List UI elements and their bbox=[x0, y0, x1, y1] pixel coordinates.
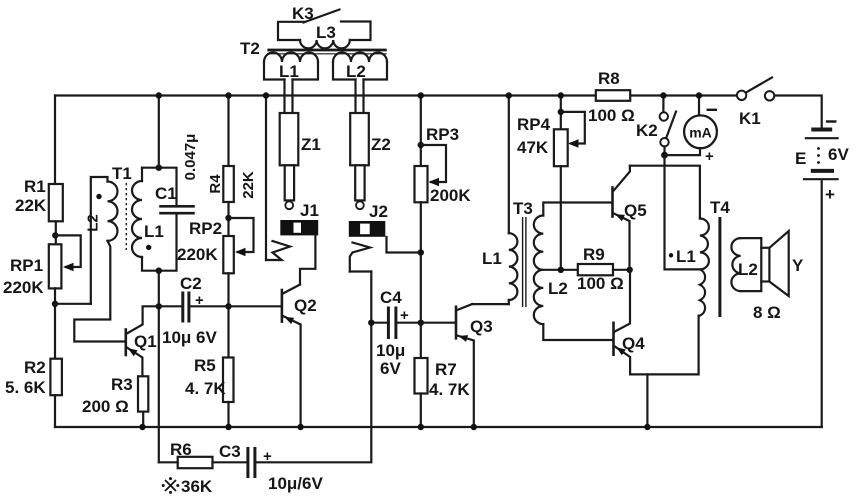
svg-text:T4: T4 bbox=[710, 198, 730, 217]
wire Q5 collector to T4 L1 top bbox=[630, 166, 700, 219]
svg-text:E: E bbox=[795, 149, 806, 168]
svg-text:R5: R5 bbox=[194, 356, 216, 375]
resistor R1 bbox=[15, 177, 63, 221]
resistor R5 bbox=[185, 356, 234, 402]
svg-text:R3: R3 bbox=[111, 375, 133, 394]
wire rail to T3 L1 bbox=[508, 96, 510, 234]
capacitor C3 bbox=[219, 442, 323, 493]
wire bottom supply rail bbox=[55, 426, 822, 428]
svg-text:R9: R9 bbox=[583, 245, 605, 264]
svg-text:L2: L2 bbox=[85, 214, 102, 232]
T3 winding L2 bbox=[534, 203, 613, 341]
wire RP1 to R2 bbox=[54, 288, 56, 358]
node Q3 emitter bottom rail bbox=[471, 424, 477, 430]
svg-text:6V: 6V bbox=[380, 359, 401, 378]
T1 winding L2 bbox=[74, 177, 125, 342]
svg-text:10μ 6V: 10μ 6V bbox=[162, 328, 217, 347]
svg-text:10μ: 10μ bbox=[376, 341, 405, 360]
svg-text:R2: R2 bbox=[24, 358, 46, 377]
svg-text:200 Ω: 200 Ω bbox=[82, 397, 129, 416]
svg-text:L1: L1 bbox=[144, 222, 164, 241]
wire rail to tank bbox=[158, 96, 160, 168]
node Q2 emitter bottom rail bbox=[297, 424, 303, 430]
svg-text:Z1: Z1 bbox=[301, 135, 321, 154]
potentiometer RP1 bbox=[3, 235, 81, 297]
inductor L3 bbox=[278, 22, 371, 49]
resistor R3 bbox=[82, 375, 148, 416]
node rail-meter junction bbox=[696, 92, 702, 98]
capacitor C1 bbox=[155, 134, 199, 214]
node rail-RP4 junction bbox=[558, 92, 564, 98]
svg-text:C1: C1 bbox=[155, 184, 177, 203]
wire rail to R4 bbox=[227, 96, 229, 167]
svg-text:C2: C2 bbox=[180, 274, 202, 293]
wire tank bottom to C2 node and R6 branch bbox=[158, 271, 160, 463]
svg-text:R7: R7 bbox=[435, 360, 457, 379]
node rail-K2 junction bbox=[660, 92, 666, 98]
T2 core bbox=[267, 49, 386, 52]
wire top rail right segment to battery bbox=[774, 96, 821, 128]
wire R3 to bottom rail bbox=[142, 412, 144, 427]
svg-text:0.047μ: 0.047μ bbox=[182, 134, 199, 181]
node RP3 wiper tap bbox=[418, 142, 424, 148]
wire Q3 base bbox=[421, 322, 455, 324]
T3 winding L1 bbox=[482, 233, 517, 304]
svg-text:4. 7K: 4. 7K bbox=[429, 380, 470, 399]
wire tap to T1 primary bbox=[55, 303, 91, 305]
svg-text:R4: R4 bbox=[207, 174, 224, 194]
node J2 sleeve junction bbox=[418, 249, 424, 255]
svg-text:L1: L1 bbox=[676, 247, 696, 266]
svg-text:+: + bbox=[195, 292, 204, 309]
svg-text:+: + bbox=[705, 148, 714, 165]
node K2-meter junction bbox=[661, 152, 668, 159]
node T3 center tap bbox=[558, 267, 564, 273]
potentiometer RP3 bbox=[415, 125, 472, 205]
wire T2-L1 leads to Z1 bbox=[285, 80, 293, 114]
meter mA bbox=[665, 96, 718, 166]
transistor Q5 bbox=[613, 166, 647, 270]
switch K1 bbox=[737, 78, 774, 129]
wire R7 to bottom rail bbox=[420, 394, 422, 428]
node C4 right junction bbox=[418, 320, 424, 326]
svg-text:L1: L1 bbox=[279, 62, 299, 81]
node R7 bottom rail bbox=[418, 424, 424, 430]
wire R1 to RP1 bbox=[55, 221, 57, 244]
svg-text:22K: 22K bbox=[240, 171, 257, 199]
svg-text:L2: L2 bbox=[346, 62, 366, 81]
switch K2 bbox=[636, 96, 676, 156]
wire RP4 to T3 center tap bbox=[560, 166, 562, 270]
svg-text:L3: L3 bbox=[316, 23, 336, 42]
T3 core bbox=[523, 217, 526, 307]
wire RP3 to R7 bbox=[420, 202, 422, 358]
svg-text:220K: 220K bbox=[3, 278, 44, 297]
wire T4 node to bottom rail bbox=[646, 374, 648, 427]
resistor R8 bbox=[588, 69, 635, 125]
node R5 bottom rail bbox=[225, 424, 231, 430]
svg-text:220K: 220K bbox=[177, 245, 218, 264]
resistor R2 bbox=[5, 358, 62, 397]
svg-text:4. 7K: 4. 7K bbox=[185, 379, 226, 398]
node C4 left junction bbox=[368, 320, 374, 326]
node rail-T3 junction bbox=[506, 92, 512, 98]
resistor R4 bbox=[207, 166, 257, 202]
wire rail to RP4 bbox=[560, 96, 562, 130]
resistor R7 bbox=[415, 358, 471, 399]
svg-text:L2: L2 bbox=[738, 260, 758, 279]
node tank top tap bbox=[156, 165, 162, 171]
svg-text:L2: L2 bbox=[548, 279, 568, 298]
node rail-R4 junction bbox=[225, 92, 231, 98]
battery E bbox=[795, 122, 849, 205]
wire rail to J1 contact bbox=[265, 96, 267, 261]
node RP1-T1 tap bbox=[52, 301, 58, 307]
T2 winding L1 bbox=[264, 53, 318, 82]
node rail-RP3 junction bbox=[418, 92, 424, 98]
wire T2-L2 leads to Z2 bbox=[356, 80, 364, 114]
resistor R9 bbox=[577, 245, 630, 293]
transistor Q2 bbox=[282, 285, 317, 428]
wire supply to T4 center tap bbox=[665, 155, 700, 269]
T2 winding L2 bbox=[333, 53, 387, 82]
svg-text:J2: J2 bbox=[369, 202, 388, 221]
svg-text:RP2: RP2 bbox=[189, 219, 222, 238]
svg-text:5. 6K: 5. 6K bbox=[5, 378, 46, 397]
transistor Q4 bbox=[614, 270, 646, 375]
wire Q4 emitter to T4 L1 bottom bbox=[630, 316, 699, 375]
svg-text:K1: K1 bbox=[739, 109, 761, 128]
svg-text:RP4: RP4 bbox=[517, 115, 551, 134]
svg-text:22K: 22K bbox=[15, 196, 47, 215]
reference mark and value 36K bbox=[162, 477, 213, 496]
svg-text:J1: J1 bbox=[300, 201, 319, 220]
T4 winding L1 bbox=[669, 219, 709, 316]
wire R6 to C3 bbox=[213, 461, 247, 463]
wire J2 contact to C3-C4 node bbox=[350, 270, 372, 272]
earphone Z1 bbox=[280, 113, 321, 209]
jack J1 bbox=[266, 201, 319, 260]
svg-text:Q4: Q4 bbox=[622, 334, 645, 353]
node C2 right junction bbox=[225, 303, 231, 309]
svg-text:T2: T2 bbox=[240, 39, 260, 58]
transistor Q1 bbox=[126, 306, 159, 376]
svg-text:R6: R6 bbox=[170, 440, 192, 459]
svg-text:Q5: Q5 bbox=[624, 201, 647, 220]
svg-text:6V: 6V bbox=[828, 145, 849, 164]
wire top supply rail bbox=[55, 94, 737, 96]
node C2 left junction bbox=[156, 303, 162, 309]
T4 core bbox=[718, 217, 721, 317]
potentiometer RP4 bbox=[517, 112, 585, 166]
node rail-J1 junction bbox=[263, 92, 269, 98]
svg-text:T1: T1 bbox=[112, 164, 132, 183]
capacitor C2 bbox=[159, 274, 229, 347]
svg-text:RP3: RP3 bbox=[426, 125, 459, 144]
node bottom rail junction bbox=[644, 424, 650, 430]
svg-text:10μ/6V: 10μ/6V bbox=[268, 474, 323, 493]
wire J2 sleeve to RP3 column bbox=[387, 237, 421, 253]
wire R5 to bottom rail bbox=[227, 402, 229, 427]
node RP4 wiper tap bbox=[558, 109, 564, 115]
svg-text:36K: 36K bbox=[181, 477, 213, 496]
capacitor C4 bbox=[371, 288, 421, 378]
node R1-RP1 junction bbox=[52, 232, 58, 238]
svg-text:Q1: Q1 bbox=[134, 332, 157, 351]
node R3 bottom rail bbox=[139, 424, 145, 430]
potentiometer RP2 bbox=[177, 218, 254, 273]
svg-text:+: + bbox=[400, 307, 409, 324]
svg-text:8 Ω: 8 Ω bbox=[753, 303, 781, 322]
wire R4 to RP2 bbox=[227, 202, 229, 236]
speaker Y bbox=[753, 231, 804, 322]
wire Q3 collector to T3 bbox=[472, 303, 509, 305]
node rail-tank junction bbox=[156, 92, 162, 98]
wire RP2 to C2 node bbox=[227, 273, 229, 357]
wire rail to RP3 bbox=[420, 96, 422, 167]
svg-text:K3: K3 bbox=[292, 4, 314, 23]
svg-text:C4: C4 bbox=[380, 288, 402, 307]
svg-text:T3: T3 bbox=[513, 199, 533, 218]
jack J2 bbox=[349, 202, 388, 272]
svg-text:100 Ω: 100 Ω bbox=[588, 106, 635, 125]
svg-text:+: + bbox=[825, 185, 835, 204]
wire R2 to bottom rail bbox=[54, 395, 56, 427]
wire C3 to J2 node bbox=[256, 272, 371, 463]
svg-text:RP1: RP1 bbox=[10, 256, 43, 275]
svg-text:Q3: Q3 bbox=[470, 317, 493, 336]
svg-text:C3: C3 bbox=[219, 442, 241, 461]
T4 winding L2 bbox=[731, 238, 761, 291]
svg-text:Y: Y bbox=[792, 256, 804, 275]
svg-text:47K: 47K bbox=[517, 138, 549, 157]
earphone Z2 bbox=[350, 113, 391, 209]
node R9 right junction bbox=[627, 267, 633, 273]
resistor R6 bbox=[159, 440, 213, 468]
T1 core bbox=[125, 183, 127, 250]
switch K3 bbox=[292, 4, 340, 23]
svg-text:R1: R1 bbox=[24, 177, 46, 196]
T1 winding L1 tank loop bbox=[132, 168, 177, 271]
node R4-RP2 junction bbox=[225, 215, 231, 221]
svg-text:K2: K2 bbox=[636, 121, 658, 140]
node tank bottom tap bbox=[156, 268, 162, 274]
svg-text:Z2: Z2 bbox=[371, 135, 391, 154]
wire Q2 base bbox=[229, 305, 282, 307]
wire left supply column bbox=[54, 96, 56, 185]
svg-text:200K: 200K bbox=[430, 186, 471, 205]
svg-text:L1: L1 bbox=[482, 249, 502, 268]
svg-text:R8: R8 bbox=[598, 69, 620, 88]
svg-text:100 Ω: 100 Ω bbox=[577, 274, 624, 293]
svg-text:mA: mA bbox=[689, 125, 712, 141]
svg-text:Q2: Q2 bbox=[294, 296, 317, 315]
wire J1 sleeve to Q2 collector bbox=[300, 235, 315, 284]
transistor Q3 bbox=[456, 304, 493, 427]
wire battery to bottom rail bbox=[821, 181, 823, 427]
